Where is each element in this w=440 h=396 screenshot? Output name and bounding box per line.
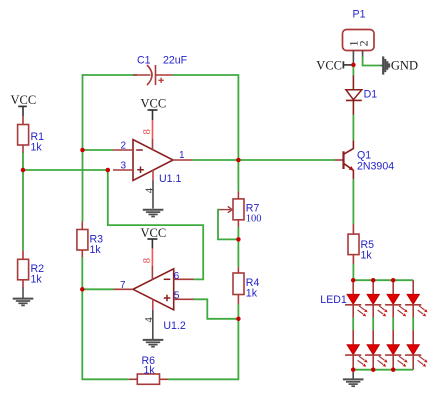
junction node LED bottom 1 xyxy=(351,367,356,372)
svg-text:1k: 1k xyxy=(31,142,43,154)
svg-text:22uF: 22uF xyxy=(163,55,188,67)
svg-text:GND: GND xyxy=(391,59,418,73)
svg-text:2: 2 xyxy=(121,141,127,152)
resistor R2 xyxy=(18,250,29,287)
svg-text:1k: 1k xyxy=(31,274,43,286)
svg-text:8: 8 xyxy=(142,258,153,263)
ground port GND at P1 xyxy=(381,56,418,74)
pin 4 ground lead U1.2 xyxy=(152,299,154,339)
svg-text:1k: 1k xyxy=(90,244,102,256)
wire LED top rail xyxy=(353,279,413,281)
svg-text:P1: P1 xyxy=(353,8,366,20)
svg-text:VCC: VCC xyxy=(11,93,37,107)
label D1 xyxy=(364,89,378,101)
pin number 6 xyxy=(174,271,180,282)
wire P1 pin1 to D1 xyxy=(352,65,354,76)
wire R3 bottom green lead xyxy=(81,257,83,290)
svg-text:8: 8 xyxy=(142,129,153,134)
pin number 1 xyxy=(179,150,185,161)
label U1.1 xyxy=(159,173,181,185)
junction node LED rail 3 xyxy=(391,278,396,283)
svg-text:1k: 1k xyxy=(361,250,373,262)
junction node LED bottom 2 xyxy=(371,367,376,372)
wire R4 node down to R6 right xyxy=(168,319,238,380)
transistor Q1 xyxy=(335,140,354,179)
svg-text:2: 2 xyxy=(357,40,371,46)
junction node pin3 net xyxy=(106,168,111,173)
wire LED bottom rail xyxy=(353,369,413,371)
pin number 2 xyxy=(121,141,127,152)
junction node output net xyxy=(236,158,241,163)
power VCC above U1.2 xyxy=(141,226,167,249)
pin number 4 label U1.2 xyxy=(144,317,155,323)
svg-text:4: 4 xyxy=(144,317,155,323)
junction node R7-R4 xyxy=(236,237,241,242)
resistor R6 xyxy=(129,374,168,384)
svg-text:6: 6 xyxy=(174,271,180,282)
diode D1 xyxy=(346,76,362,115)
pin number 7 xyxy=(120,280,126,291)
label P1 xyxy=(353,8,366,20)
wire main horizontal y170 xyxy=(23,169,108,171)
junction node LED rail 2 xyxy=(371,278,376,283)
junction node R4-pin5 xyxy=(236,317,241,322)
wire Q1 emitter to R5 xyxy=(352,179,354,224)
wire R7 wiper loop xyxy=(218,210,238,240)
svg-text:D1: D1 xyxy=(364,89,378,101)
svg-text:5: 5 xyxy=(174,291,180,302)
wire pin5 to R4 bottom route xyxy=(194,299,239,319)
ground under U1.1 xyxy=(143,210,164,217)
junction node LED bottom 3 xyxy=(391,367,396,372)
power VCC above U1.1 xyxy=(141,97,167,121)
pin number 1 of P1 xyxy=(346,40,360,46)
svg-text:U1.2: U1.2 xyxy=(163,320,185,332)
LED D row2 col1 (part of LED1) xyxy=(345,330,368,370)
wire pin3 to pin6 route xyxy=(108,170,203,279)
power VCC top-left xyxy=(11,93,37,116)
junction node VCC-P1 xyxy=(351,63,356,68)
wire R1 to R2 vertical xyxy=(22,152,24,250)
resistor R5 xyxy=(348,224,359,264)
wire U1.1 output to Q1 base xyxy=(193,159,335,161)
label R5 value xyxy=(361,239,375,262)
wire P1 pin2 to GND port xyxy=(363,57,381,66)
wire C1-left to R3 vertical net xyxy=(83,75,138,222)
pin number 2 of P1 xyxy=(357,40,371,46)
resistor R3 xyxy=(77,222,88,258)
resistor R4 xyxy=(233,267,244,304)
wire R6 left to pin7 node xyxy=(82,289,129,379)
svg-text:U1.1: U1.1 xyxy=(159,173,181,185)
label R6 value xyxy=(142,355,156,377)
pin number 3 xyxy=(121,161,127,172)
label Q1 value xyxy=(357,150,394,173)
wire D1 to Q1 collector xyxy=(352,115,354,141)
svg-text:100: 100 xyxy=(246,213,262,224)
pin number 8 label U1.2 xyxy=(142,258,153,263)
pin 4 ground lead U1.1 xyxy=(152,170,154,208)
label LED1 xyxy=(320,294,347,306)
LED D row1 col3 (part of LED1) xyxy=(385,280,408,317)
LED D row1 col2 (part of LED1) xyxy=(365,280,388,317)
junction node LED rail 1 xyxy=(351,278,356,283)
resistor R7 (trimmer) xyxy=(220,191,245,227)
connector P1 xyxy=(343,30,375,65)
pin number 4 label U1.1 xyxy=(145,187,156,193)
svg-text:C1: C1 xyxy=(137,55,151,67)
label C1 value xyxy=(137,55,188,67)
label R1 value xyxy=(31,131,45,154)
op-amp U1.2 xyxy=(114,269,194,310)
label U1.2 xyxy=(163,320,185,332)
label R4 value xyxy=(246,277,260,300)
op-amp U1.1 xyxy=(113,140,193,181)
junction node pin7-R3 xyxy=(80,287,85,292)
junction node pin2 net xyxy=(80,148,85,153)
label R2 value xyxy=(31,263,45,286)
LED D row1 col1 (part of LED1) xyxy=(345,280,368,317)
label R3 value xyxy=(90,234,104,257)
svg-text:VCC: VCC xyxy=(141,226,167,240)
wire R4 bottom green lead xyxy=(237,304,239,319)
ground under LED array xyxy=(343,370,364,387)
capacitor C1 xyxy=(133,65,173,85)
LED D row1 col4 (part of LED1) xyxy=(405,280,428,317)
wire output node down to R7 xyxy=(237,160,239,191)
resistor R1 xyxy=(18,116,29,153)
svg-text:4: 4 xyxy=(145,187,156,193)
wire R7 bottom to R4 top xyxy=(237,227,239,267)
svg-text:2N3904: 2N3904 xyxy=(357,161,394,173)
LED D row2 col3 (part of LED1) xyxy=(385,330,408,370)
junction node at R1-R2 wire xyxy=(21,168,26,173)
svg-text:VCC: VCC xyxy=(141,97,167,111)
svg-text:3: 3 xyxy=(121,161,127,172)
pin number 5 xyxy=(174,291,180,302)
svg-text:1k: 1k xyxy=(246,288,258,300)
svg-text:1: 1 xyxy=(179,150,185,161)
pin 8 power lead U1.2 xyxy=(151,249,153,280)
LED D row2 col2 (part of LED1) xyxy=(365,330,388,370)
wire R5 bottom to LED rail xyxy=(352,264,354,280)
label R7 value xyxy=(246,203,262,225)
wire LED column mid segments xyxy=(353,318,413,331)
wire C1-right down to output node xyxy=(173,75,239,160)
pin 8 power lead U1.1 xyxy=(152,120,154,150)
ground under R2 xyxy=(13,287,34,305)
LED D row2 col4 (part of LED1) xyxy=(405,330,428,370)
svg-text:VCC: VCC xyxy=(316,58,342,72)
svg-text:7: 7 xyxy=(120,280,126,291)
ground under U1.2 xyxy=(143,340,164,347)
power VCC at P1 xyxy=(316,58,353,72)
svg-text:LED1: LED1 xyxy=(320,294,347,306)
pin number 8 label U1.1 xyxy=(142,129,153,134)
wire pin2 stub net xyxy=(83,149,114,151)
svg-text:1k: 1k xyxy=(144,364,156,376)
wire pin7 stub net xyxy=(82,288,113,290)
